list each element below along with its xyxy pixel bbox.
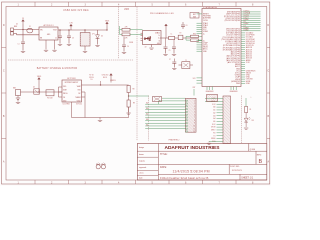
- svg-text:Y1: Y1: [185, 60, 187, 62]
- svg-text:DOC NO:: DOC NO:: [230, 166, 240, 168]
- svg-text:ADAFRUIT INDUSTRIES: ADAFRUIT INDUSTRIES: [165, 145, 221, 151]
- svg-text:() 866: () 866: [250, 149, 256, 151]
- svg-text:C: C: [3, 69, 5, 72]
- svg-text:A0: A0: [213, 106, 215, 109]
- svg-text:D: D: [267, 24, 269, 27]
- svg-text:+: +: [98, 162, 99, 164]
- svg-text:GND: GND: [211, 91, 214, 93]
- svg-text:R8: R8: [133, 89, 135, 91]
- svg-text:CE: CE: [63, 97, 65, 99]
- svg-text:XXXXXXX: XXXXXXX: [232, 170, 243, 172]
- svg-text:SOT23-5: SOT23-5: [76, 103, 82, 105]
- svg-text:X2: X2: [145, 46, 147, 48]
- svg-text:VSS: VSS: [77, 90, 80, 92]
- svg-text:C6: C6: [186, 25, 188, 27]
- svg-text:C7: C7: [169, 59, 171, 61]
- svg-text:VUSB: VUSB: [129, 42, 133, 44]
- svg-text:F1: F1: [29, 26, 31, 28]
- svg-text:IC1 ATMEGA32U4: IC1 ATMEGA32U4: [203, 6, 217, 9]
- svg-text:11: 11: [193, 128, 195, 130]
- svg-text:CHG LED: CHG LED: [102, 75, 110, 77]
- svg-text:C1: C1: [18, 44, 20, 46]
- svg-text:D2: D2: [101, 36, 103, 38]
- svg-text:TITLE:: TITLE:: [160, 153, 168, 156]
- svg-text:R7 1K: R7 1K: [89, 75, 93, 77]
- svg-text:approved:: approved:: [139, 166, 147, 169]
- svg-text:VBUS: VBUS: [105, 21, 109, 23]
- svg-text:GND: GND: [236, 83, 241, 85]
- svg-text:VIN: VIN: [40, 29, 43, 31]
- svg-text:D13: D13: [252, 120, 255, 122]
- svg-text:EN: EN: [40, 38, 42, 40]
- svg-text:11/4/2015 5:08:04 PM: 11/4/2015 5:08:04 PM: [173, 170, 210, 174]
- svg-text:MISO: MISO: [211, 130, 216, 132]
- svg-text:VSS2: VSS2: [77, 100, 81, 102]
- svg-text:AP2112K-3.3: AP2112K-3.3: [44, 24, 54, 27]
- svg-text:USB3 AND 3V3 REG: USB3 AND 3V3 REG: [63, 9, 89, 12]
- svg-text:drawn:: drawn:: [139, 153, 145, 156]
- svg-text:A1: A1: [213, 109, 215, 112]
- svg-text:L1: L1: [171, 34, 173, 36]
- svg-text:F32u4 Feather 32u4 basic.sch: F32u4 Feather 32u4 basic.sch rev B: [160, 176, 208, 180]
- svg-text:date:: date:: [139, 176, 143, 179]
- svg-text:VBUS: VBUS: [37, 76, 41, 78]
- svg-text:C: C: [267, 69, 269, 72]
- svg-text:PROGRAMMING LED: PROGRAMMING LED: [150, 12, 174, 15]
- svg-text:JP1: JP1: [92, 34, 95, 36]
- svg-text:R6 1K: R6 1K: [103, 77, 107, 79]
- svg-text:VOUT: VOUT: [53, 29, 57, 31]
- svg-text:GND: GND: [235, 91, 238, 93]
- svg-text:USB: USB: [124, 9, 130, 11]
- svg-text:A2: A2: [213, 111, 215, 114]
- svg-text:Q1: Q1: [33, 87, 35, 89]
- svg-text:VCC: VCC: [157, 33, 160, 35]
- svg-text:C5: C5: [169, 50, 171, 52]
- svg-text:REV:: REV:: [257, 154, 262, 156]
- svg-text:A4: A4: [213, 117, 215, 120]
- svg-text:FEATHER12: FEATHER12: [169, 138, 180, 141]
- svg-text:THERM: THERM: [75, 97, 81, 99]
- svg-text:D: D: [3, 24, 5, 27]
- svg-text:GND: GND: [157, 43, 160, 45]
- svg-text:SHEET: 1/1: SHEET: 1/1: [241, 177, 254, 179]
- svg-text:C3: C3: [72, 38, 74, 40]
- svg-text:A3: A3: [213, 114, 215, 117]
- svg-text:GND: GND: [246, 83, 251, 85]
- svg-text:IC2 CHRG: IC2 CHRG: [62, 103, 70, 105]
- svg-text:(PDO/PCINT3)PB3: (PDO/PCINT3)PB3: [225, 20, 240, 22]
- svg-text:D1: D1: [16, 24, 18, 26]
- svg-text:MOSI: MOSI: [211, 127, 216, 129]
- svg-text:+: +: [103, 162, 104, 164]
- svg-text:RST: RST: [193, 87, 196, 89]
- svg-text:RST: RST: [193, 14, 196, 16]
- svg-text:BATTERY CHARGE & MONITOR: BATTERY CHARGE & MONITOR: [37, 67, 78, 70]
- svg-text:check:: check:: [139, 173, 144, 175]
- svg-text:C4: C4: [127, 46, 129, 48]
- svg-text:SCK: SCK: [193, 78, 196, 80]
- svg-text:R9: R9: [133, 103, 135, 105]
- svg-text:F2: F2: [180, 33, 182, 35]
- svg-text:B: B: [258, 159, 262, 165]
- svg-text:DATE:: DATE:: [160, 166, 167, 169]
- svg-text:D+: D+: [158, 38, 160, 40]
- svg-text:ladyada: ladyada: [139, 161, 145, 163]
- svg-text:R5 100K: R5 100K: [47, 97, 52, 99]
- svg-text:12: 12: [193, 131, 195, 133]
- svg-text:A5: A5: [213, 120, 215, 123]
- svg-text:R1: R1: [250, 109, 252, 111]
- svg-text:MCP73831: MCP73831: [67, 78, 76, 80]
- svg-text:10: 10: [193, 126, 195, 128]
- svg-text:D9/A9: D9/A9: [244, 28, 249, 31]
- svg-text:RN1: RN1: [193, 33, 196, 35]
- svg-text:design: design: [139, 147, 144, 149]
- svg-text:C2: C2: [55, 38, 57, 40]
- svg-text:SW1: SW1: [193, 16, 196, 18]
- svg-text:ID: ID: [159, 40, 160, 42]
